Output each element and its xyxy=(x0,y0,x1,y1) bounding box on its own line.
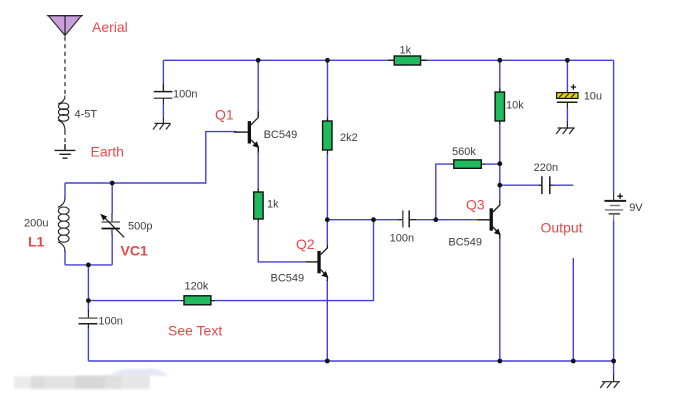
svg-text:100n: 100n xyxy=(173,89,197,101)
wire collector node to Q2 collector xyxy=(326,220,328,246)
wire top rail to 10k xyxy=(499,60,501,90)
wire Q3 base node up to 560k xyxy=(436,164,451,220)
ground (100n decoupling) xyxy=(153,123,171,129)
svg-text:Q1: Q1 xyxy=(215,107,234,123)
svg-text:100n: 100n xyxy=(390,233,414,245)
aerial symbol xyxy=(47,16,83,149)
wire tank bottom xyxy=(65,264,112,266)
node top rail / 10u xyxy=(565,58,570,63)
wire output lower terminal to bottom rail xyxy=(572,258,574,361)
wire bottom rail xyxy=(88,360,613,362)
transistor Q3 BC549 xyxy=(478,201,501,239)
capacitor 100n (bottom left) xyxy=(79,310,98,328)
resistor 1k (supply rail) xyxy=(388,56,427,65)
node 10k/220n xyxy=(497,183,502,188)
wire Q1 collector xyxy=(257,60,259,116)
ground (10u) xyxy=(556,128,575,134)
capacitor 220n xyxy=(539,176,554,194)
svg-text:2k2: 2k2 xyxy=(340,132,358,144)
resistor 560k xyxy=(451,160,485,168)
node tank bottom xyxy=(86,263,91,268)
svg-text:10k: 10k xyxy=(506,99,524,111)
transistor Q1 BC549 xyxy=(234,112,259,153)
wire 2k2 to collector node xyxy=(326,153,328,220)
resistor 1k (Q1 emitter) xyxy=(254,189,263,223)
wire right rail lower (battery -) xyxy=(613,221,615,361)
svg-text:4-5T: 4-5T xyxy=(75,109,98,121)
svg-text:200u: 200u xyxy=(24,218,48,230)
wire 100n to Q3 base node xyxy=(416,219,478,221)
wire 560k right to 10k bottom node xyxy=(485,163,500,165)
svg-text:Q3: Q3 xyxy=(466,197,485,213)
wire node to 220n xyxy=(500,184,539,186)
node bottom rail / Q3 emitter xyxy=(497,359,502,364)
node feedback 120k xyxy=(371,217,376,222)
svg-text:VC1: VC1 xyxy=(121,243,148,259)
wire 10k bottom to nodes xyxy=(499,123,501,186)
svg-text:220n: 220n xyxy=(534,162,558,174)
node 120k left xyxy=(86,298,91,303)
capacitor 100n (interstage) xyxy=(399,210,416,227)
node top rail / Q1 collector xyxy=(256,58,261,63)
wire 120k right up to collector node xyxy=(214,220,374,301)
inductor 4-5T (aerial coil) xyxy=(58,96,69,131)
wire top rail to 10u xyxy=(566,60,568,92)
wire tank top to Q1 base xyxy=(65,132,237,183)
node top rail / 10k xyxy=(497,58,502,63)
svg-text:1k: 1k xyxy=(267,199,279,211)
wire node to Q3 collector xyxy=(499,185,501,201)
wire left leg upper (VC1 junction to 120k node) xyxy=(87,265,89,301)
svg-text:See Text: See Text xyxy=(168,323,222,339)
node top rail / 2k2 xyxy=(325,58,330,63)
node tank top / VC1 xyxy=(110,181,115,186)
wire Q2 emitter to bottom rail xyxy=(326,280,328,361)
node bottom rail / Q2 emitter xyxy=(325,359,330,364)
node bottom rail / output xyxy=(571,359,576,364)
svg-text:Aerial: Aerial xyxy=(92,19,128,35)
variable capacitor VC1 500p xyxy=(100,213,124,237)
ground Earth xyxy=(55,144,76,158)
watermark smudge xyxy=(14,369,170,389)
svg-text:BC549: BC549 xyxy=(448,237,482,249)
node bottom rail / battery xyxy=(611,359,616,364)
wire Q3 emitter to bottom rail xyxy=(499,237,501,362)
resistor 2k2 xyxy=(323,118,332,154)
resistor 10k xyxy=(495,89,504,125)
wire 120k left xyxy=(88,300,181,302)
wire 1k bottom to Q2 base xyxy=(258,222,306,262)
inductor L1 200u xyxy=(58,198,69,252)
svg-text:Earth: Earth xyxy=(91,144,124,160)
wire VC1 bottom lead xyxy=(111,235,113,265)
wire VC1 top lead xyxy=(111,183,113,214)
capacitor 100n (supply decoupling) xyxy=(154,60,173,123)
svg-text:560k: 560k xyxy=(452,146,476,158)
wire Q2 collector node to 100n xyxy=(327,219,399,221)
svg-text:Output: Output xyxy=(541,220,583,236)
wire L1 top lead xyxy=(64,183,66,199)
svg-text:500p: 500p xyxy=(128,221,152,233)
node Q2 collector xyxy=(325,217,330,222)
wire right rail upper (battery +) xyxy=(613,60,615,193)
wire 100n cap to bottom rail xyxy=(87,327,89,361)
resistor 120k xyxy=(181,296,215,305)
svg-text:1k: 1k xyxy=(400,45,412,57)
svg-text:100n: 100n xyxy=(98,315,122,327)
svg-text:BC549: BC549 xyxy=(271,273,305,285)
capacitor 10u (electrolytic) xyxy=(557,84,578,128)
node 10k/560k xyxy=(497,161,502,166)
wire top rail to 2k2 xyxy=(327,60,329,118)
wire Q1 emitter to 1k xyxy=(257,148,259,190)
svg-text:L1: L1 xyxy=(28,234,45,250)
svg-text:10u: 10u xyxy=(584,91,602,103)
svg-text:120k: 120k xyxy=(185,281,209,293)
svg-text:9V: 9V xyxy=(629,202,643,214)
wire L1 bottom lead xyxy=(64,251,66,265)
node Q3 base xyxy=(433,217,438,222)
svg-text:Q2: Q2 xyxy=(296,236,315,252)
battery 9V xyxy=(604,193,626,221)
wire 220n to output terminal xyxy=(553,184,573,186)
wire left leg to 100n cap xyxy=(87,301,89,311)
wire top rail xyxy=(163,59,613,61)
ground (battery / bottom right) xyxy=(600,361,620,388)
transistor Q2 BC549 xyxy=(306,245,328,281)
svg-text:BC549: BC549 xyxy=(264,129,298,141)
